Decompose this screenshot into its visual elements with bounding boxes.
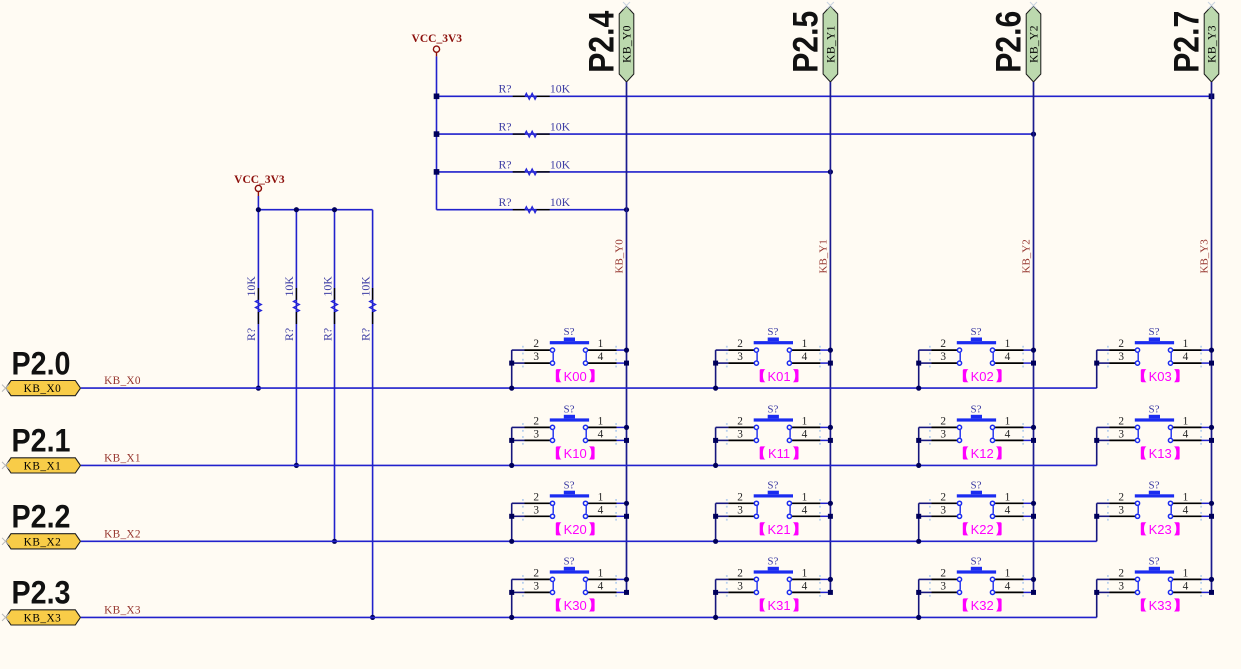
svg-text:S?: S? (767, 326, 778, 338)
switch S? (K03) cell wiring: left vertical + jogs (1097, 350, 1110, 388)
power VCC_3V3 (left) (234, 174, 285, 196)
pin end marks (K21) (726, 499, 821, 521)
port KB_X2 connection tip mark (2, 538, 9, 545)
switch S? (K23) pin 1 (1173, 502, 1202, 504)
switch S? (K20) pin 3 (525, 515, 551, 517)
svg-text:S?: S? (971, 403, 982, 415)
switch S? (K03) pin 1 (1173, 349, 1202, 351)
svg-text:R?: R? (498, 120, 511, 134)
svg-text:1: 1 (1183, 491, 1189, 503)
wire left VCC vertical stub (257, 196, 259, 210)
switch S? (K10) pin 3 (525, 439, 551, 441)
wire column bus KB_Y2 (1033, 82, 1035, 592)
junction K13 pin 1 / column bus (1209, 425, 1214, 430)
switch S? (K12) pin 1 (995, 426, 1024, 428)
junction K31 left vertical / pin 3 (713, 590, 718, 595)
svg-text:KB_X3: KB_X3 (104, 604, 141, 616)
svg-text:3: 3 (1118, 351, 1124, 363)
svg-text:10K: 10K (320, 276, 334, 297)
junction K31 left vertical / row bus (713, 615, 718, 620)
svg-text:KB_Y0: KB_Y0 (614, 239, 626, 274)
switch S? (K20) pin 4 (588, 515, 617, 517)
resistor R? (horizontal pull-up 1) (513, 93, 550, 99)
switch S? (K32) pin 2 (932, 578, 958, 580)
svg-text:3: 3 (940, 351, 946, 363)
junction K12 left vertical / row bus (916, 463, 921, 468)
label K11 (magenta) (760, 446, 799, 461)
switch S? (K31) cell wiring: left vertical + jogs (716, 579, 729, 617)
port KB_Y2 (P2.6) (1026, 6, 1041, 82)
svg-text:KB_X0: KB_X0 (24, 383, 62, 395)
junction K20 left vertical / pin 3 (509, 514, 514, 519)
svg-text:R?: R? (320, 328, 334, 341)
junction K12 pin 1 / column bus (1031, 425, 1036, 430)
junction at VCC vertical / row 2 (434, 131, 440, 137)
switch S? (K13) pin 3 (1110, 439, 1136, 441)
power VCC_3V3 (top) (412, 33, 463, 57)
switch S? (K10) pin 2 (525, 426, 551, 428)
label K23 (magenta) (1141, 522, 1180, 537)
pin end marks (K20) (522, 499, 617, 521)
wire left rail horizontal (258, 209, 372, 211)
switch S? (K03) pin 2 (1110, 349, 1136, 351)
junction K32 left vertical / row bus (916, 615, 921, 620)
switch S? (K22) body: actuator bar + contacts (957, 491, 996, 519)
switch S? (K31) pin 3 (728, 591, 754, 593)
svg-text:KB_Y3: KB_Y3 (1199, 239, 1211, 274)
svg-text:KB_X1: KB_X1 (104, 452, 141, 464)
svg-text:KB_X3: KB_X3 (24, 612, 62, 624)
svg-text:10K: 10K (550, 82, 571, 96)
svg-text:2: 2 (1118, 491, 1124, 503)
pin end marks (K30) (522, 575, 617, 597)
switch S? (K23) pin 3 (1110, 515, 1136, 517)
switch S? (K01) pin 2 (728, 349, 754, 351)
switch S? (K32) pin 3 (932, 591, 958, 593)
switch S? (K03) pin 4 (1173, 362, 1202, 364)
junction K30 pin 1 / column bus (624, 577, 629, 582)
junction K23 pin 1 / column bus (1209, 501, 1214, 506)
junction K22 pin 1 / column bus (1031, 501, 1036, 506)
pin end marks (K13) (1107, 423, 1202, 445)
svg-text:P2.6: P2.6 (990, 11, 1029, 73)
svg-text:4: 4 (802, 504, 808, 516)
switch S? (K11) pin 1 (792, 426, 821, 428)
svg-text:3: 3 (737, 504, 743, 516)
junction at VCC vertical / row 1 (434, 94, 440, 100)
svg-text:3: 3 (533, 504, 539, 516)
junction K30 left vertical / row bus (509, 615, 514, 620)
junction K31 pin 1 / column bus (828, 577, 833, 582)
svg-text:2: 2 (737, 567, 743, 579)
svg-text:3: 3 (737, 351, 743, 363)
pin end marks (K23) (1107, 499, 1202, 521)
junction K20 pin 1 / column bus (624, 501, 629, 506)
svg-text:KB_X2: KB_X2 (104, 528, 141, 540)
switch S? (K23) pin 2 (1110, 502, 1136, 504)
resistor R? (vertical pull-up 2) (294, 288, 300, 324)
svg-text:3: 3 (737, 428, 743, 440)
switch S? (K31) pin 4 (792, 591, 821, 593)
svg-text:K21: K21 (768, 522, 791, 537)
svg-text:R?: R? (498, 157, 511, 171)
switch S? (K12) pin 2 (932, 426, 958, 428)
switch S? (K21) body: actuator bar + contacts (754, 491, 793, 519)
svg-text:1: 1 (598, 338, 604, 350)
switch S? (K33) cell wiring: left vertical + jogs (1097, 579, 1110, 617)
junction left rail / column 2 (294, 207, 299, 212)
resistor R? (horizontal pull-up 3) (513, 169, 550, 175)
switch S? (K01) pin 1 (792, 349, 821, 351)
pin end marks (K10) (522, 423, 617, 445)
junction K30 pin 4 / column bus (624, 590, 629, 595)
svg-text:10K: 10K (244, 276, 258, 297)
svg-text:R?: R? (358, 328, 372, 341)
port KB_X1 (P2.1) (6, 458, 81, 473)
svg-text:4: 4 (1183, 504, 1189, 516)
switch S? (K33) pin 1 (1173, 578, 1202, 580)
switch S? (K30) pin 3 (525, 591, 551, 593)
svg-text:K22: K22 (971, 522, 994, 537)
junction K32 pin 1 / column bus (1031, 577, 1036, 582)
junction K33 left vertical / pin 3 (1094, 590, 1099, 595)
junction K22 left vertical / row bus (916, 539, 921, 544)
switch S? (K02) pin 1 (995, 349, 1024, 351)
svg-text:1: 1 (1005, 567, 1011, 579)
port KB_Y3 (P2.7) (1204, 6, 1219, 82)
svg-text:P2.3: P2.3 (12, 575, 71, 611)
svg-text:2: 2 (533, 415, 539, 427)
svg-text:3: 3 (533, 428, 539, 440)
svg-text:1: 1 (598, 491, 604, 503)
junction pull-up column 3 / KB_X2 bus (332, 539, 337, 544)
label K01 (magenta) (760, 369, 799, 384)
junction K23 left vertical / pin 3 (1094, 514, 1099, 519)
wire row bus KB_X1 (81, 464, 1097, 466)
junction K03 pin 1 / column bus (1209, 348, 1214, 353)
pin end marks (K02) (929, 346, 1024, 368)
label K30 (magenta) (556, 598, 595, 613)
svg-text:3: 3 (533, 580, 539, 592)
junction K21 left vertical / pin 3 (713, 514, 718, 519)
svg-text:K02: K02 (971, 369, 994, 384)
junction K01 left vertical / pin 3 (713, 361, 718, 366)
port KB_X0 (P2.0) (6, 381, 81, 396)
junction K01 pin 4 / column bus (828, 361, 833, 366)
port KB_Y0 (P2.4) (619, 6, 634, 82)
svg-text:KB_Y2: KB_Y2 (1029, 25, 1041, 63)
port KB_X2 (P2.2) (6, 534, 81, 549)
junction at column 2 / row 3 end (828, 169, 833, 174)
svg-text:1: 1 (598, 415, 604, 427)
wire pull-up row 3 (y=171.9) (437, 171, 831, 173)
switch S? (K22) pin 1 (995, 502, 1024, 504)
port KB_X0 connection tip mark (2, 385, 9, 392)
svg-text:4: 4 (802, 580, 808, 592)
label K33 (magenta) (1141, 598, 1180, 613)
svg-text:10K: 10K (550, 195, 571, 209)
junction K10 left vertical / row bus (509, 463, 514, 468)
port KB_X3 (P2.3) (6, 610, 81, 625)
switch S? (K20) pin 1 (588, 502, 617, 504)
switch S? (K10) pin 4 (588, 439, 617, 441)
switch S? (K02) pin 3 (932, 362, 958, 364)
port KB_Y1 top tip mark (827, 2, 834, 9)
svg-text:VCC_3V3: VCC_3V3 (412, 33, 463, 45)
junction at column 4 / row 1 end (1209, 94, 1215, 100)
switch S? (K01) pin 3 (728, 362, 754, 364)
junction K32 left vertical / pin 3 (916, 590, 921, 595)
junction K10 pin 1 / column bus (624, 425, 629, 430)
port KB_Y1 (P2.5) (823, 6, 838, 82)
svg-text:S?: S? (564, 326, 575, 338)
svg-text:R?: R? (244, 328, 258, 341)
switch S? (K33) body: actuator bar + contacts (1135, 567, 1174, 595)
wire pull-up column 4 vertical (372, 210, 374, 618)
svg-text:K11: K11 (768, 446, 790, 461)
svg-text:2: 2 (737, 338, 743, 350)
label K03 (magenta) (1141, 369, 1180, 384)
svg-text:P2.7: P2.7 (1168, 11, 1207, 73)
svg-text:1: 1 (802, 491, 808, 503)
pin end marks (K03) (1107, 346, 1202, 368)
junction K21 pin 1 / column bus (828, 501, 833, 506)
resistor R? (horizontal pull-up 4) (513, 207, 550, 213)
svg-text:KB_Y2: KB_Y2 (1021, 239, 1033, 273)
svg-text:2: 2 (737, 415, 743, 427)
svg-text:K12: K12 (971, 446, 994, 461)
switch S? (K30) pin 4 (588, 591, 617, 593)
switch S? (K22) pin 3 (932, 515, 958, 517)
junction K11 pin 4 / column bus (828, 438, 833, 443)
port KB_X3 connection tip mark (2, 614, 9, 621)
junction K02 pin 1 / column bus (1031, 348, 1036, 353)
junction K20 left vertical / row bus (509, 539, 514, 544)
switch S? (K21) cell wiring: left vertical + jogs (716, 503, 729, 541)
junction K31 pin 4 / column bus (828, 590, 833, 595)
pin end marks (K00) (522, 346, 617, 368)
label K20 (magenta) (556, 522, 595, 537)
port KB_X1 connection tip mark (2, 462, 9, 469)
switch S? (K01) cell wiring: left vertical + jogs (716, 350, 729, 388)
svg-text:S?: S? (767, 403, 778, 415)
junction K13 pin 4 / column bus (1209, 438, 1214, 443)
wire top VCC vertical (436, 56, 438, 209)
switch S? (K33) pin 4 (1173, 591, 1202, 593)
junction K12 pin 4 / column bus (1031, 438, 1036, 443)
svg-text:KB_X1: KB_X1 (24, 460, 62, 472)
svg-text:3: 3 (940, 580, 946, 592)
svg-text:2: 2 (940, 567, 946, 579)
switch S? (K31) body: actuator bar + contacts (754, 567, 793, 595)
switch S? (K20) cell wiring: left vertical + jogs (512, 503, 525, 541)
svg-text:10K: 10K (358, 276, 372, 297)
junction K11 left vertical / pin 3 (713, 438, 718, 443)
wire row bus KB_X2 (81, 540, 1097, 542)
junction K33 pin 1 / column bus (1209, 577, 1214, 582)
svg-text:S?: S? (1149, 403, 1160, 415)
svg-text:1: 1 (1183, 567, 1189, 579)
pin end marks (K33) (1107, 575, 1202, 597)
switch S? (K21) pin 3 (728, 515, 754, 517)
junction K01 left vertical / row bus (713, 386, 718, 391)
port KB_Y2 top tip mark (1030, 2, 1037, 9)
switch S? (K33) pin 2 (1110, 578, 1136, 580)
label K12 (magenta) (963, 446, 1002, 461)
switch S? (K00) pin 1 (588, 349, 617, 351)
switch S? (K30) pin 1 (588, 578, 617, 580)
switch S? (K11) body: actuator bar + contacts (754, 415, 793, 443)
port KB_Y0 top tip mark (623, 2, 630, 9)
junction left rail / column 1 (256, 207, 261, 212)
switch S? (K32) pin 1 (995, 578, 1024, 580)
svg-text:2: 2 (533, 338, 539, 350)
svg-text:S?: S? (1149, 555, 1160, 567)
junction K20 pin 4 / column bus (624, 514, 629, 519)
switch S? (K21) pin 1 (792, 502, 821, 504)
switch S? (K23) body: actuator bar + contacts (1135, 491, 1174, 519)
switch S? (K21) pin 2 (728, 502, 754, 504)
junction K03 left vertical / pin 3 (1094, 361, 1099, 366)
junction pull-up column 2 / KB_X1 bus (294, 463, 299, 468)
svg-text:R?: R? (282, 328, 296, 341)
wire pull-up column 2 vertical (295, 210, 297, 466)
junction K11 left vertical / row bus (713, 463, 718, 468)
svg-text:P2.0: P2.0 (12, 345, 71, 381)
switch S? (K02) cell wiring: left vertical + jogs (919, 350, 932, 388)
svg-text:2: 2 (1118, 415, 1124, 427)
svg-text:1: 1 (802, 415, 808, 427)
svg-text:K33: K33 (1149, 598, 1172, 613)
pin end marks (K22) (929, 499, 1024, 521)
svg-text:3: 3 (940, 504, 946, 516)
label K02 (magenta) (963, 369, 1002, 384)
resistor R? (vertical pull-up 4) (370, 288, 376, 324)
switch S? (K30) body: actuator bar + contacts (550, 567, 589, 595)
junction pull-up column 1 / KB_X0 bus (256, 386, 261, 391)
junction K12 left vertical / pin 3 (916, 438, 921, 443)
svg-text:10K: 10K (282, 276, 296, 297)
junction K02 pin 4 / column bus (1031, 361, 1036, 366)
switch S? (K30) pin 2 (525, 578, 551, 580)
switch S? (K11) pin 3 (728, 439, 754, 441)
svg-text:S?: S? (971, 555, 982, 567)
svg-text:2: 2 (940, 415, 946, 427)
switch S? (K22) pin 2 (932, 502, 958, 504)
switch S? (K32) pin 4 (995, 591, 1024, 593)
junction K02 left vertical / pin 3 (916, 361, 921, 366)
pin end marks (K32) (929, 575, 1024, 597)
pin end marks (K12) (929, 423, 1024, 445)
junction left rail / column 3 (332, 207, 337, 212)
switch S? (K02) pin 2 (932, 349, 958, 351)
switch S? (K22) cell wiring: left vertical + jogs (919, 503, 932, 541)
wire pull-up column 1 vertical (257, 210, 259, 388)
svg-text:S?: S? (1149, 326, 1160, 338)
junction K30 left vertical / pin 3 (509, 590, 514, 595)
svg-text:S?: S? (564, 555, 575, 567)
svg-text:1: 1 (1005, 491, 1011, 503)
wire row bus KB_X0 (81, 387, 1097, 389)
svg-text:3: 3 (533, 351, 539, 363)
switch S? (K00) pin 2 (525, 349, 551, 351)
junction K03 pin 4 / column bus (1209, 361, 1214, 366)
svg-text:R?: R? (498, 195, 511, 209)
svg-text:KB_Y3: KB_Y3 (1207, 25, 1219, 63)
svg-text:4: 4 (1183, 580, 1189, 592)
svg-text:K10: K10 (564, 446, 587, 461)
svg-text:4: 4 (1183, 428, 1189, 440)
switch S? (K13) body: actuator bar + contacts (1135, 415, 1174, 443)
pin end marks (K31) (726, 575, 821, 597)
svg-text:4: 4 (598, 351, 604, 363)
svg-text:1: 1 (1005, 338, 1011, 350)
switch S? (K11) cell wiring: left vertical + jogs (716, 427, 729, 465)
junction K00 left vertical / row bus (509, 386, 514, 391)
svg-text:K03: K03 (1149, 369, 1172, 384)
svg-text:1: 1 (802, 338, 808, 350)
switch S? (K20) body: actuator bar + contacts (550, 491, 589, 519)
wire pull-up row 2 (y=134.1) (437, 133, 1034, 135)
junction K10 pin 4 / column bus (624, 438, 629, 443)
svg-text:2: 2 (737, 491, 743, 503)
svg-text:2: 2 (1118, 567, 1124, 579)
svg-text:1: 1 (802, 567, 808, 579)
switch S? (K12) cell wiring: left vertical + jogs (919, 427, 932, 465)
junction K00 pin 1 / column bus (624, 348, 629, 353)
switch S? (K10) cell wiring: left vertical + jogs (512, 427, 525, 465)
switch S? (K33) pin 3 (1110, 591, 1136, 593)
wire pull-up row 1 (y=96.3) (437, 95, 1212, 97)
svg-text:S?: S? (1149, 479, 1160, 491)
svg-text:4: 4 (598, 504, 604, 516)
switch S? (K12) body: actuator bar + contacts (957, 415, 996, 443)
switch S? (K13) pin 1 (1173, 426, 1202, 428)
switch S? (K03) body: actuator bar + contacts (1135, 338, 1174, 366)
junction K22 pin 4 / column bus (1031, 514, 1036, 519)
svg-text:10K: 10K (550, 157, 571, 171)
svg-text:4: 4 (802, 351, 808, 363)
svg-text:3: 3 (1118, 580, 1124, 592)
label K32 (magenta) (963, 598, 1002, 613)
svg-text:KB_X2: KB_X2 (24, 536, 62, 548)
switch S? (K13) pin 4 (1173, 439, 1202, 441)
junction K33 pin 4 / column bus (1209, 590, 1214, 595)
svg-text:K23: K23 (1149, 522, 1172, 537)
svg-text:4: 4 (598, 428, 604, 440)
junction K01 pin 1 / column bus (828, 348, 833, 353)
svg-text:K32: K32 (971, 598, 994, 613)
switch S? (K31) pin 2 (728, 578, 754, 580)
switch S? (K00) body: actuator bar + contacts (550, 338, 589, 366)
junction K22 left vertical / pin 3 (916, 514, 921, 519)
svg-text:K20: K20 (564, 522, 587, 537)
switch S? (K32) cell wiring: left vertical + jogs (919, 579, 932, 617)
svg-text:4: 4 (1005, 428, 1011, 440)
switch S? (K10) pin 1 (588, 426, 617, 428)
svg-text:10K: 10K (550, 120, 571, 134)
wire row bus KB_X3 (81, 616, 1097, 618)
svg-text:2: 2 (940, 491, 946, 503)
svg-text:S?: S? (971, 326, 982, 338)
svg-text:VCC_3V3: VCC_3V3 (234, 174, 285, 186)
svg-text:1: 1 (1183, 415, 1189, 427)
switch S? (K03) pin 3 (1110, 362, 1136, 364)
switch S? (K11) pin 4 (792, 439, 821, 441)
switch S? (K12) pin 4 (995, 439, 1024, 441)
switch S? (K21) pin 4 (792, 515, 821, 517)
svg-text:KB_Y1: KB_Y1 (825, 25, 837, 63)
